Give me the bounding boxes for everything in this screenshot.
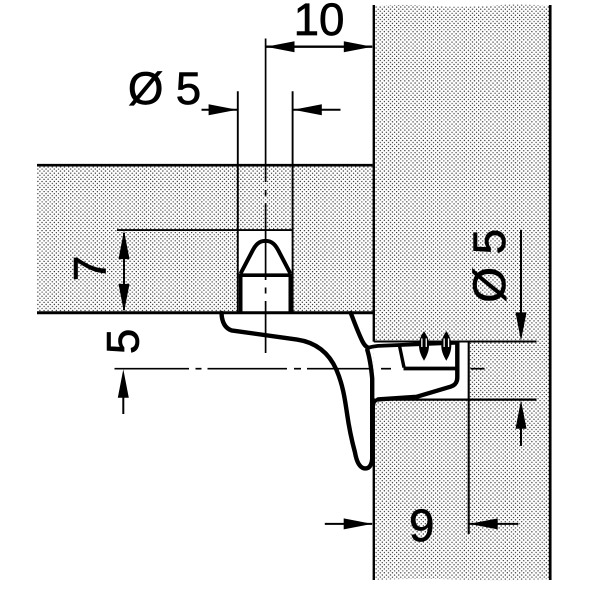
dimension 10 (hole center to panel face) xyxy=(266,0,372,52)
dimension Ø5 (panel hole diameter, rotated) xyxy=(464,229,527,446)
stem/neck divider xyxy=(399,344,404,367)
panel hole top edge + Ø5 extension xyxy=(374,341,537,343)
centerline vertical (peg axis + 10-dim extension) xyxy=(265,39,267,354)
hole corner fillet (white wedge) xyxy=(374,400,381,407)
svg-text:7: 7 xyxy=(65,256,116,281)
panel left face lower xyxy=(373,400,375,581)
hole corner fillet arc xyxy=(374,400,381,407)
dimension Ø5 (shelf hole diameter) xyxy=(128,63,341,115)
shelf bottom edge xyxy=(37,311,373,314)
shelf hole (5mm drilling, white) xyxy=(238,230,293,313)
svg-text:5: 5 xyxy=(176,63,201,114)
shelf support bracket outline xyxy=(222,313,373,468)
svg-text:5: 5 xyxy=(98,329,149,354)
dimension 7 (shelf hole depth) xyxy=(65,231,130,313)
dimension 5 (shelf bottom to pin axis) xyxy=(98,329,149,414)
stem end + lower lip xyxy=(378,343,457,400)
shelf support pin: peg body in shelf hole xyxy=(239,275,293,311)
shelf hole top + 7-dim extension line xyxy=(117,229,293,231)
dimension 9 (panel hole depth) xyxy=(325,500,519,551)
bracket upper-right diagonal (against panel) xyxy=(351,313,368,348)
centerline horizontal (pin axis + 5-dim extension) xyxy=(115,368,485,370)
svg-text:Ø: Ø xyxy=(128,63,164,114)
panel hole (white) xyxy=(374,342,469,400)
pin stem top edge xyxy=(368,343,458,348)
pin stem bottom edge xyxy=(404,367,458,371)
barb rib 1 on stem xyxy=(419,331,429,361)
barb rib 2 on stem xyxy=(441,331,451,361)
panel hole end / 9-dim extension xyxy=(468,342,470,535)
panel right edge xyxy=(549,5,552,580)
svg-text:10: 10 xyxy=(294,0,345,45)
panel hole bottom edge + Ø5 extension xyxy=(374,399,537,401)
shelf hole right wall / Ø5 extension xyxy=(292,91,294,312)
svg-text:Ø 5: Ø 5 xyxy=(464,229,515,303)
side panel (stippled) xyxy=(374,4,550,580)
svg-text:9: 9 xyxy=(409,500,434,551)
shelf hole left wall / Ø5 extension xyxy=(237,91,239,312)
peg dome tip xyxy=(241,241,291,274)
panel left face upper xyxy=(373,5,375,342)
shelf top edge xyxy=(37,164,373,167)
shelf board (stippled) xyxy=(37,165,373,313)
